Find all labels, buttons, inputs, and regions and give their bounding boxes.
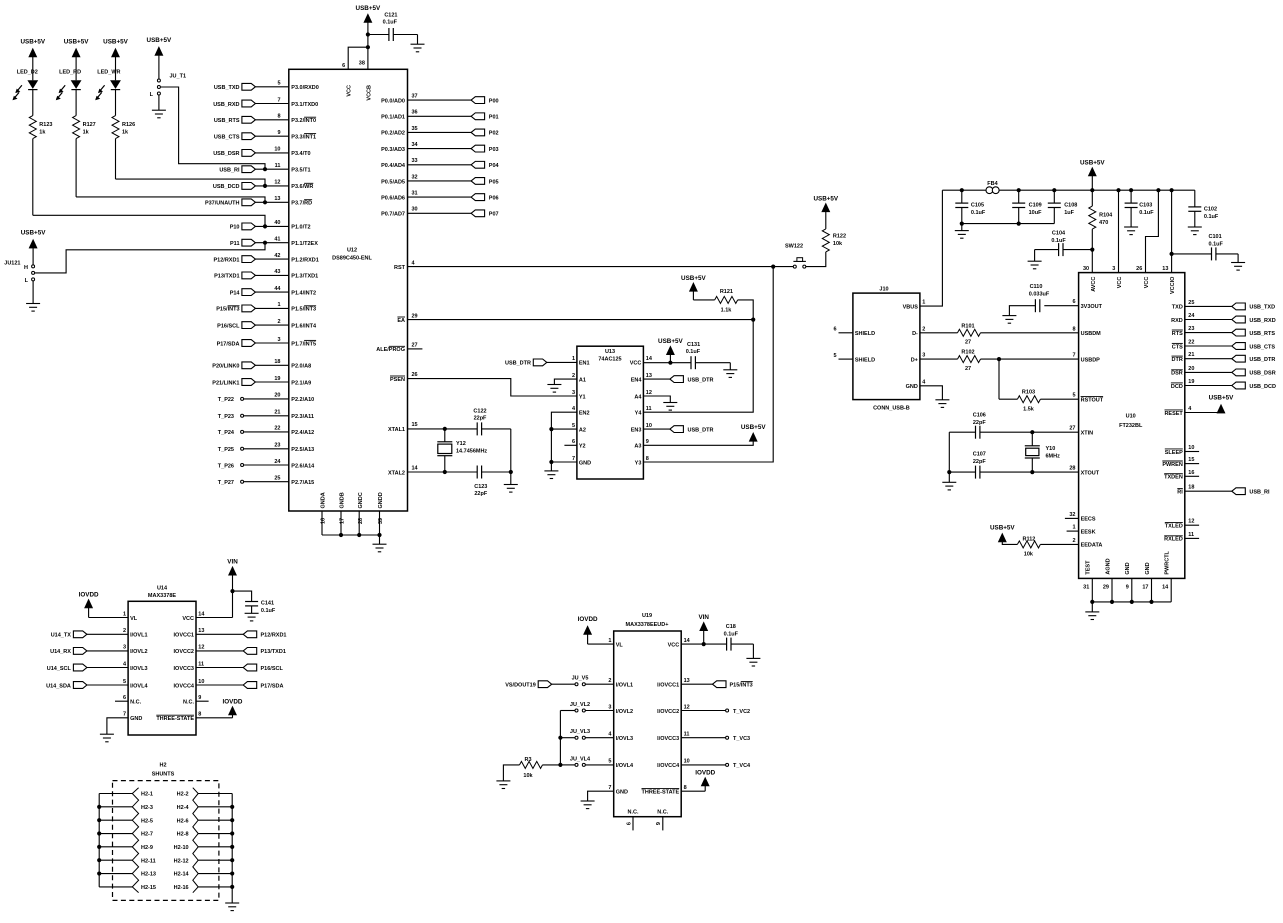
svg-text:1uF: 1uF bbox=[1064, 210, 1074, 216]
svg-text:P1.2/RXD1: P1.2/RXD1 bbox=[291, 257, 319, 263]
svg-text:11: 11 bbox=[646, 406, 652, 412]
svg-text:3: 3 bbox=[922, 353, 925, 359]
svg-text:22: 22 bbox=[274, 426, 280, 432]
svg-text:8: 8 bbox=[198, 712, 201, 718]
svg-text:P0.6/AD6: P0.6/AD6 bbox=[381, 195, 405, 201]
svg-text:H2-1: H2-1 bbox=[141, 792, 153, 798]
svg-text:Y4: Y4 bbox=[635, 411, 643, 417]
svg-text:GND: GND bbox=[579, 460, 591, 466]
svg-text:28: 28 bbox=[358, 518, 364, 524]
svg-text:VCCIO: VCCIO bbox=[1170, 276, 1176, 294]
svg-text:P2.0/A8: P2.0/A8 bbox=[291, 364, 311, 370]
svg-text:GND: GND bbox=[130, 716, 142, 722]
svg-text:26: 26 bbox=[412, 372, 418, 378]
svg-text:TXLED: TXLED bbox=[1165, 524, 1183, 530]
svg-text:VCC: VCC bbox=[182, 616, 194, 622]
svg-text:IOVDD: IOVDD bbox=[223, 698, 243, 705]
svg-text:C121: C121 bbox=[384, 13, 397, 19]
svg-text:H2-3: H2-3 bbox=[141, 805, 153, 811]
svg-text:C18: C18 bbox=[726, 624, 736, 630]
svg-text:U14_RX: U14_RX bbox=[50, 649, 71, 655]
svg-text:12: 12 bbox=[274, 180, 280, 186]
svg-text:29: 29 bbox=[412, 313, 418, 319]
svg-text:6: 6 bbox=[572, 439, 575, 445]
svg-text:20: 20 bbox=[274, 393, 280, 399]
svg-text:15: 15 bbox=[412, 422, 418, 428]
svg-text:USB+5V: USB+5V bbox=[64, 39, 89, 46]
svg-text:LED_WR: LED_WR bbox=[97, 70, 120, 76]
svg-text:THREE-STATE: THREE-STATE bbox=[642, 790, 680, 796]
svg-text:3V3OUT: 3V3OUT bbox=[1081, 304, 1103, 310]
svg-text:2: 2 bbox=[277, 319, 280, 325]
svg-text:R101: R101 bbox=[961, 323, 974, 329]
svg-text:16: 16 bbox=[1188, 470, 1194, 476]
svg-text:P2.2/A10: P2.2/A10 bbox=[291, 397, 314, 403]
svg-text:USB+5V: USB+5V bbox=[21, 230, 46, 237]
svg-text:USB_CTS: USB_CTS bbox=[1249, 344, 1275, 350]
svg-text:USB+5V: USB+5V bbox=[147, 37, 172, 44]
svg-text:D+: D+ bbox=[911, 357, 918, 363]
svg-text:IOVCC1: IOVCC1 bbox=[174, 633, 194, 639]
svg-text:25: 25 bbox=[274, 476, 280, 482]
svg-text:Y12: Y12 bbox=[456, 441, 466, 447]
svg-text:P17/SDA: P17/SDA bbox=[217, 341, 240, 347]
svg-text:USB_RI: USB_RI bbox=[1249, 490, 1270, 496]
svg-text:R104: R104 bbox=[1099, 212, 1113, 218]
svg-text:6: 6 bbox=[123, 695, 126, 701]
svg-text:R126: R126 bbox=[122, 122, 135, 128]
svg-text:23: 23 bbox=[1188, 326, 1194, 332]
svg-text:A2: A2 bbox=[579, 427, 586, 433]
svg-text:14.7456MHz: 14.7456MHz bbox=[456, 448, 487, 454]
svg-text:0.1uF: 0.1uF bbox=[261, 608, 276, 614]
svg-text:CTS: CTS bbox=[1172, 344, 1183, 350]
svg-text:R123: R123 bbox=[39, 122, 52, 128]
svg-text:P0.7/AD7: P0.7/AD7 bbox=[381, 212, 405, 218]
svg-text:N.C.: N.C. bbox=[130, 700, 141, 706]
svg-text:GND: GND bbox=[1145, 562, 1151, 574]
svg-text:P10: P10 bbox=[230, 225, 240, 231]
svg-text:7: 7 bbox=[572, 456, 575, 462]
svg-text:U14_SCL: U14_SCL bbox=[47, 666, 72, 672]
svg-text:USB+5V: USB+5V bbox=[356, 5, 381, 12]
svg-text:DS89C450-ENL: DS89C450-ENL bbox=[332, 256, 372, 262]
svg-text:8: 8 bbox=[1072, 326, 1075, 332]
svg-text:P0.0/AD0: P0.0/AD0 bbox=[381, 98, 405, 104]
svg-text:USB+5V: USB+5V bbox=[741, 424, 766, 431]
svg-text:N.C.: N.C. bbox=[183, 700, 194, 706]
svg-text:8: 8 bbox=[684, 785, 687, 791]
svg-text:USB_DTR: USB_DTR bbox=[1249, 357, 1275, 363]
svg-text:18: 18 bbox=[274, 359, 280, 365]
svg-text:1: 1 bbox=[277, 302, 280, 308]
svg-text:22pF: 22pF bbox=[973, 459, 986, 465]
svg-text:P1.3/TXD1: P1.3/TXD1 bbox=[291, 274, 318, 280]
svg-text:P3.3/INT1: P3.3/INT1 bbox=[291, 135, 316, 141]
svg-text:H2-10: H2-10 bbox=[174, 845, 189, 851]
svg-text:10: 10 bbox=[274, 147, 280, 153]
svg-text:JU_T1: JU_T1 bbox=[170, 74, 187, 80]
svg-text:1k: 1k bbox=[122, 130, 129, 136]
svg-text:N.C.: N.C. bbox=[657, 810, 668, 816]
svg-text:31: 31 bbox=[1083, 584, 1089, 590]
svg-text:SW122: SW122 bbox=[785, 244, 803, 250]
svg-text:RI: RI bbox=[1177, 490, 1183, 496]
svg-text:29: 29 bbox=[1103, 584, 1109, 590]
svg-text:AGND: AGND bbox=[1105, 558, 1111, 574]
svg-text:0.1uF: 0.1uF bbox=[971, 210, 986, 216]
svg-text:EECS: EECS bbox=[1081, 517, 1096, 523]
svg-text:JU_VL4: JU_VL4 bbox=[570, 756, 591, 762]
svg-text:USB_DCD: USB_DCD bbox=[1249, 384, 1276, 390]
svg-text:P3.2/INT0: P3.2/INT0 bbox=[291, 118, 316, 124]
svg-text:1k: 1k bbox=[39, 130, 46, 136]
svg-text:I/OVCC3: I/OVCC3 bbox=[657, 736, 679, 742]
svg-text:10: 10 bbox=[1188, 445, 1194, 451]
svg-text:9: 9 bbox=[1126, 584, 1129, 590]
svg-text:P1.1/T2EX: P1.1/T2EX bbox=[291, 241, 318, 247]
svg-text:P21/LINK1: P21/LINK1 bbox=[212, 380, 239, 386]
svg-text:D-: D- bbox=[912, 331, 918, 337]
svg-text:IOVCC3: IOVCC3 bbox=[174, 666, 194, 672]
svg-text:USB_RTS: USB_RTS bbox=[214, 118, 240, 124]
svg-text:P05: P05 bbox=[489, 179, 499, 185]
svg-text:C102: C102 bbox=[1204, 206, 1217, 212]
svg-text:RESET: RESET bbox=[1164, 411, 1183, 417]
svg-text:AVCC: AVCC bbox=[1091, 277, 1097, 292]
svg-text:RTS: RTS bbox=[1172, 331, 1183, 337]
svg-text:P1.6/INT4: P1.6/INT4 bbox=[291, 323, 317, 329]
svg-text:32: 32 bbox=[412, 174, 418, 180]
svg-text:27: 27 bbox=[412, 343, 418, 349]
svg-text:10: 10 bbox=[684, 759, 690, 765]
svg-text:40: 40 bbox=[274, 220, 280, 226]
svg-text:H2-9: H2-9 bbox=[141, 845, 153, 851]
svg-text:P3.5/T1: P3.5/T1 bbox=[291, 168, 310, 174]
svg-text:XTOUT: XTOUT bbox=[1081, 470, 1100, 476]
svg-text:C110: C110 bbox=[1030, 284, 1043, 290]
svg-text:0.1uF: 0.1uF bbox=[1139, 210, 1154, 216]
svg-text:I/OVCC1: I/OVCC1 bbox=[657, 683, 679, 689]
svg-text:U13: U13 bbox=[605, 349, 615, 355]
svg-text:U14_SDA: U14_SDA bbox=[46, 683, 71, 689]
svg-text:GNDC: GNDC bbox=[358, 492, 364, 508]
svg-text:GND: GND bbox=[616, 790, 628, 796]
svg-text:H: H bbox=[24, 265, 28, 271]
svg-text:5: 5 bbox=[123, 679, 126, 685]
svg-text:P2.4/A12: P2.4/A12 bbox=[291, 430, 314, 436]
svg-text:U19: U19 bbox=[642, 613, 652, 619]
svg-text:470: 470 bbox=[1099, 220, 1108, 226]
svg-text:GND: GND bbox=[1125, 562, 1131, 574]
svg-text:PWREN: PWREN bbox=[1162, 462, 1183, 468]
svg-text:P3.7/RD: P3.7/RD bbox=[291, 201, 312, 207]
svg-text:H2-12: H2-12 bbox=[174, 858, 189, 864]
svg-text:EN2: EN2 bbox=[579, 411, 590, 417]
svg-text:35: 35 bbox=[412, 126, 418, 132]
svg-text:XTAL1: XTAL1 bbox=[388, 427, 405, 433]
svg-text:GNDD: GNDD bbox=[378, 492, 384, 508]
svg-text:5: 5 bbox=[833, 353, 836, 359]
svg-text:P0.3/AD3: P0.3/AD3 bbox=[381, 147, 405, 153]
svg-text:H2-8: H2-8 bbox=[177, 832, 189, 838]
svg-text:I/OVL3: I/OVL3 bbox=[616, 736, 633, 742]
svg-text:MAX3378E: MAX3378E bbox=[148, 593, 176, 599]
svg-text:GNDA: GNDA bbox=[321, 492, 327, 508]
svg-text:8: 8 bbox=[646, 456, 649, 462]
svg-text:R112: R112 bbox=[1022, 537, 1035, 543]
svg-text:19: 19 bbox=[1188, 379, 1194, 385]
svg-text:1: 1 bbox=[1072, 525, 1075, 531]
svg-text:C123: C123 bbox=[474, 484, 487, 490]
svg-text:27: 27 bbox=[965, 340, 971, 346]
svg-text:FB4: FB4 bbox=[987, 181, 998, 187]
svg-text:DCD: DCD bbox=[1171, 384, 1183, 390]
svg-text:0.1uF: 0.1uF bbox=[1051, 238, 1066, 244]
svg-text:P0.1/AD1: P0.1/AD1 bbox=[381, 115, 405, 121]
svg-text:10: 10 bbox=[646, 423, 652, 429]
svg-text:14: 14 bbox=[412, 465, 419, 471]
svg-text:P20/LINK0: P20/LINK0 bbox=[212, 364, 239, 370]
svg-text:30: 30 bbox=[1083, 266, 1089, 272]
svg-text:33: 33 bbox=[412, 158, 418, 164]
svg-text:P04: P04 bbox=[489, 163, 500, 169]
svg-text:FT232BL: FT232BL bbox=[1119, 423, 1143, 429]
svg-text:USBDM: USBDM bbox=[1081, 331, 1102, 337]
svg-text:1: 1 bbox=[922, 300, 925, 306]
svg-text:R122: R122 bbox=[833, 234, 846, 240]
svg-text:JU_V5: JU_V5 bbox=[572, 676, 589, 682]
svg-text:U14_TX: U14_TX bbox=[51, 633, 72, 639]
svg-text:P3.6/WR: P3.6/WR bbox=[291, 184, 313, 190]
svg-text:16: 16 bbox=[321, 518, 327, 524]
svg-text:P15/INT3: P15/INT3 bbox=[730, 683, 753, 689]
svg-text:P16/SCL: P16/SCL bbox=[261, 666, 284, 672]
svg-text:USB_DSR: USB_DSR bbox=[213, 151, 239, 157]
svg-text:USB+5V: USB+5V bbox=[813, 196, 838, 203]
svg-text:P03: P03 bbox=[489, 147, 499, 153]
svg-text:U10: U10 bbox=[1126, 413, 1136, 419]
svg-text:10uF: 10uF bbox=[1029, 210, 1042, 216]
svg-text:JU121: JU121 bbox=[4, 261, 20, 267]
svg-text:EN1: EN1 bbox=[579, 361, 590, 367]
svg-text:VBUS: VBUS bbox=[903, 304, 919, 310]
svg-text:37: 37 bbox=[412, 94, 418, 100]
svg-text:8: 8 bbox=[277, 114, 280, 120]
svg-text:VL: VL bbox=[130, 616, 138, 622]
svg-text:18: 18 bbox=[1188, 485, 1194, 491]
svg-text:9: 9 bbox=[198, 695, 201, 701]
svg-text:R121: R121 bbox=[720, 289, 733, 295]
svg-text:R103: R103 bbox=[1022, 390, 1035, 396]
svg-text:27: 27 bbox=[965, 366, 971, 372]
svg-text:0.1uF: 0.1uF bbox=[724, 631, 739, 637]
svg-text:P06: P06 bbox=[489, 195, 499, 201]
svg-text:H2-5: H2-5 bbox=[141, 818, 153, 824]
svg-text:1.5k: 1.5k bbox=[1023, 406, 1035, 412]
svg-text:H2-11: H2-11 bbox=[141, 858, 156, 864]
svg-text:21: 21 bbox=[274, 410, 280, 416]
svg-text:39: 39 bbox=[378, 518, 384, 524]
svg-text:PWRCTL: PWRCTL bbox=[1165, 550, 1171, 574]
svg-text:U12: U12 bbox=[347, 248, 357, 254]
svg-text:C107: C107 bbox=[973, 452, 986, 458]
svg-text:J10: J10 bbox=[879, 287, 888, 293]
svg-text:17: 17 bbox=[340, 518, 346, 524]
svg-text:Y1: Y1 bbox=[579, 394, 586, 400]
svg-text:USB_DTR: USB_DTR bbox=[505, 361, 531, 367]
svg-text:A4: A4 bbox=[634, 394, 642, 400]
svg-text:0.1uF: 0.1uF bbox=[383, 20, 398, 26]
svg-text:15: 15 bbox=[1188, 457, 1194, 463]
svg-text:P12/RXD1: P12/RXD1 bbox=[261, 633, 287, 639]
svg-text:I/OVL3: I/OVL3 bbox=[130, 666, 147, 672]
svg-text:ALE/PROG: ALE/PROG bbox=[376, 347, 405, 353]
svg-text:31: 31 bbox=[412, 191, 418, 197]
svg-text:T_VC2: T_VC2 bbox=[733, 709, 750, 715]
svg-text:P0.5/AD5: P0.5/AD5 bbox=[381, 179, 405, 185]
svg-text:H2-7: H2-7 bbox=[141, 832, 153, 838]
svg-text:38: 38 bbox=[359, 60, 365, 66]
svg-text:14: 14 bbox=[1162, 584, 1169, 590]
svg-text:44: 44 bbox=[274, 286, 281, 292]
svg-text:12: 12 bbox=[646, 390, 652, 396]
svg-text:P1.4/INT2: P1.4/INT2 bbox=[291, 290, 316, 296]
svg-text:H2-13: H2-13 bbox=[141, 872, 156, 878]
svg-text:USB_RI: USB_RI bbox=[219, 168, 240, 174]
svg-text:VIN: VIN bbox=[227, 559, 238, 566]
svg-text:C105: C105 bbox=[971, 203, 984, 209]
svg-text:I/OVL2: I/OVL2 bbox=[616, 709, 633, 715]
svg-text:T_P23: T_P23 bbox=[218, 414, 234, 420]
svg-text:H2-14: H2-14 bbox=[174, 872, 190, 878]
svg-text:P2.5/A13: P2.5/A13 bbox=[291, 447, 314, 453]
svg-text:SHIELD: SHIELD bbox=[855, 357, 875, 363]
svg-text:DSR: DSR bbox=[1171, 371, 1183, 377]
svg-text:30: 30 bbox=[412, 207, 418, 213]
svg-text:T_VC3: T_VC3 bbox=[733, 736, 750, 742]
svg-text:USB+5V: USB+5V bbox=[1080, 159, 1105, 166]
svg-text:11: 11 bbox=[684, 732, 690, 738]
svg-text:USBDP: USBDP bbox=[1081, 357, 1101, 363]
svg-text:14: 14 bbox=[198, 611, 205, 617]
svg-text:VCC: VCC bbox=[1117, 277, 1123, 289]
svg-text:P3.1/TXD0: P3.1/TXD0 bbox=[291, 102, 318, 108]
svg-text:RXD: RXD bbox=[1171, 318, 1183, 324]
svg-text:VCC: VCC bbox=[1144, 277, 1150, 289]
svg-text:32: 32 bbox=[1069, 512, 1075, 518]
svg-text:5: 5 bbox=[1072, 393, 1075, 399]
svg-text:36: 36 bbox=[412, 110, 418, 116]
svg-text:Y10: Y10 bbox=[1046, 446, 1056, 452]
svg-text:IOVCC4: IOVCC4 bbox=[174, 683, 195, 689]
svg-text:USB+5V: USB+5V bbox=[990, 524, 1015, 531]
svg-text:7: 7 bbox=[608, 785, 611, 791]
svg-text:JU_VL2: JU_VL2 bbox=[570, 702, 590, 708]
svg-text:H2: H2 bbox=[159, 763, 166, 769]
svg-text:SLEEP: SLEEP bbox=[1165, 450, 1183, 456]
svg-text:P11: P11 bbox=[230, 241, 239, 247]
svg-text:Y3: Y3 bbox=[635, 460, 642, 466]
svg-text:I/OVL2: I/OVL2 bbox=[130, 649, 147, 655]
svg-text:USB+5V: USB+5V bbox=[20, 39, 45, 46]
svg-text:A3: A3 bbox=[634, 444, 641, 450]
svg-text:H2-2: H2-2 bbox=[177, 792, 189, 798]
svg-text:RXLED: RXLED bbox=[1164, 537, 1183, 543]
svg-text:12: 12 bbox=[684, 704, 690, 710]
svg-text:CONN_USB-B: CONN_USB-B bbox=[873, 405, 910, 411]
svg-text:P0.4/AD4: P0.4/AD4 bbox=[381, 163, 406, 169]
svg-text:3: 3 bbox=[572, 390, 575, 396]
svg-text:1k: 1k bbox=[83, 130, 90, 136]
svg-text:P1.0/T2: P1.0/T2 bbox=[291, 225, 310, 231]
svg-text:9: 9 bbox=[277, 130, 280, 136]
svg-text:24: 24 bbox=[1188, 313, 1195, 319]
svg-text:TEST: TEST bbox=[1086, 560, 1092, 575]
svg-text:JU_VL3: JU_VL3 bbox=[570, 729, 590, 735]
svg-text:P13/TXD1: P13/TXD1 bbox=[214, 274, 239, 280]
svg-text:I/OVL4: I/OVL4 bbox=[130, 683, 148, 689]
svg-text:74AC125: 74AC125 bbox=[598, 357, 621, 363]
svg-text:P2.6/A14: P2.6/A14 bbox=[291, 463, 315, 469]
svg-text:6: 6 bbox=[833, 327, 836, 333]
svg-text:7: 7 bbox=[1072, 353, 1075, 359]
svg-text:T_P25: T_P25 bbox=[218, 447, 234, 453]
svg-text:VCC: VCC bbox=[630, 361, 642, 367]
svg-text:2: 2 bbox=[572, 373, 575, 379]
svg-text:C108: C108 bbox=[1064, 203, 1077, 209]
svg-text:Y2: Y2 bbox=[579, 444, 586, 450]
svg-text:11: 11 bbox=[275, 163, 281, 169]
svg-text:USB_RTS: USB_RTS bbox=[1249, 331, 1275, 337]
svg-text:I/OVL1: I/OVL1 bbox=[130, 633, 147, 639]
svg-text:P3.0/RXD0: P3.0/RXD0 bbox=[291, 85, 319, 91]
svg-text:I/OVCC4: I/OVCC4 bbox=[657, 763, 680, 769]
svg-text:H2-16: H2-16 bbox=[174, 885, 189, 891]
svg-text:T_P26: T_P26 bbox=[218, 463, 234, 469]
svg-text:USB_TXD: USB_TXD bbox=[214, 85, 240, 91]
svg-text:IOVDD: IOVDD bbox=[79, 591, 99, 598]
svg-text:3: 3 bbox=[1112, 266, 1115, 272]
svg-text:25: 25 bbox=[1188, 300, 1194, 306]
svg-text:VCC: VCC bbox=[347, 85, 353, 97]
svg-text:USB+5V: USB+5V bbox=[681, 275, 706, 282]
svg-text:5: 5 bbox=[572, 423, 575, 429]
svg-text:42: 42 bbox=[274, 253, 280, 259]
svg-text:10: 10 bbox=[198, 679, 204, 685]
svg-text:C131: C131 bbox=[687, 342, 700, 348]
svg-text:22pF: 22pF bbox=[474, 416, 487, 422]
svg-text:USB_CTS: USB_CTS bbox=[214, 135, 240, 141]
svg-text:21: 21 bbox=[1188, 352, 1194, 358]
svg-text:P17/SDA: P17/SDA bbox=[261, 683, 284, 689]
svg-text:28: 28 bbox=[1069, 466, 1075, 472]
svg-text:9: 9 bbox=[656, 822, 662, 825]
svg-text:IOVCC2: IOVCC2 bbox=[174, 649, 194, 655]
svg-text:6: 6 bbox=[342, 63, 345, 69]
svg-text:P01: P01 bbox=[489, 115, 499, 121]
svg-text:H2-15: H2-15 bbox=[141, 885, 156, 891]
svg-text:5: 5 bbox=[277, 81, 280, 87]
svg-text:C101: C101 bbox=[1209, 234, 1222, 240]
svg-text:T_VC4: T_VC4 bbox=[733, 763, 751, 769]
svg-text:13: 13 bbox=[198, 628, 204, 634]
svg-text:7: 7 bbox=[123, 712, 126, 718]
svg-text:USB_RXD: USB_RXD bbox=[1249, 318, 1275, 324]
svg-text:11: 11 bbox=[1188, 532, 1194, 538]
svg-text:0.1uF: 0.1uF bbox=[1204, 214, 1219, 220]
svg-text:P13/TXD1: P13/TXD1 bbox=[261, 649, 286, 655]
